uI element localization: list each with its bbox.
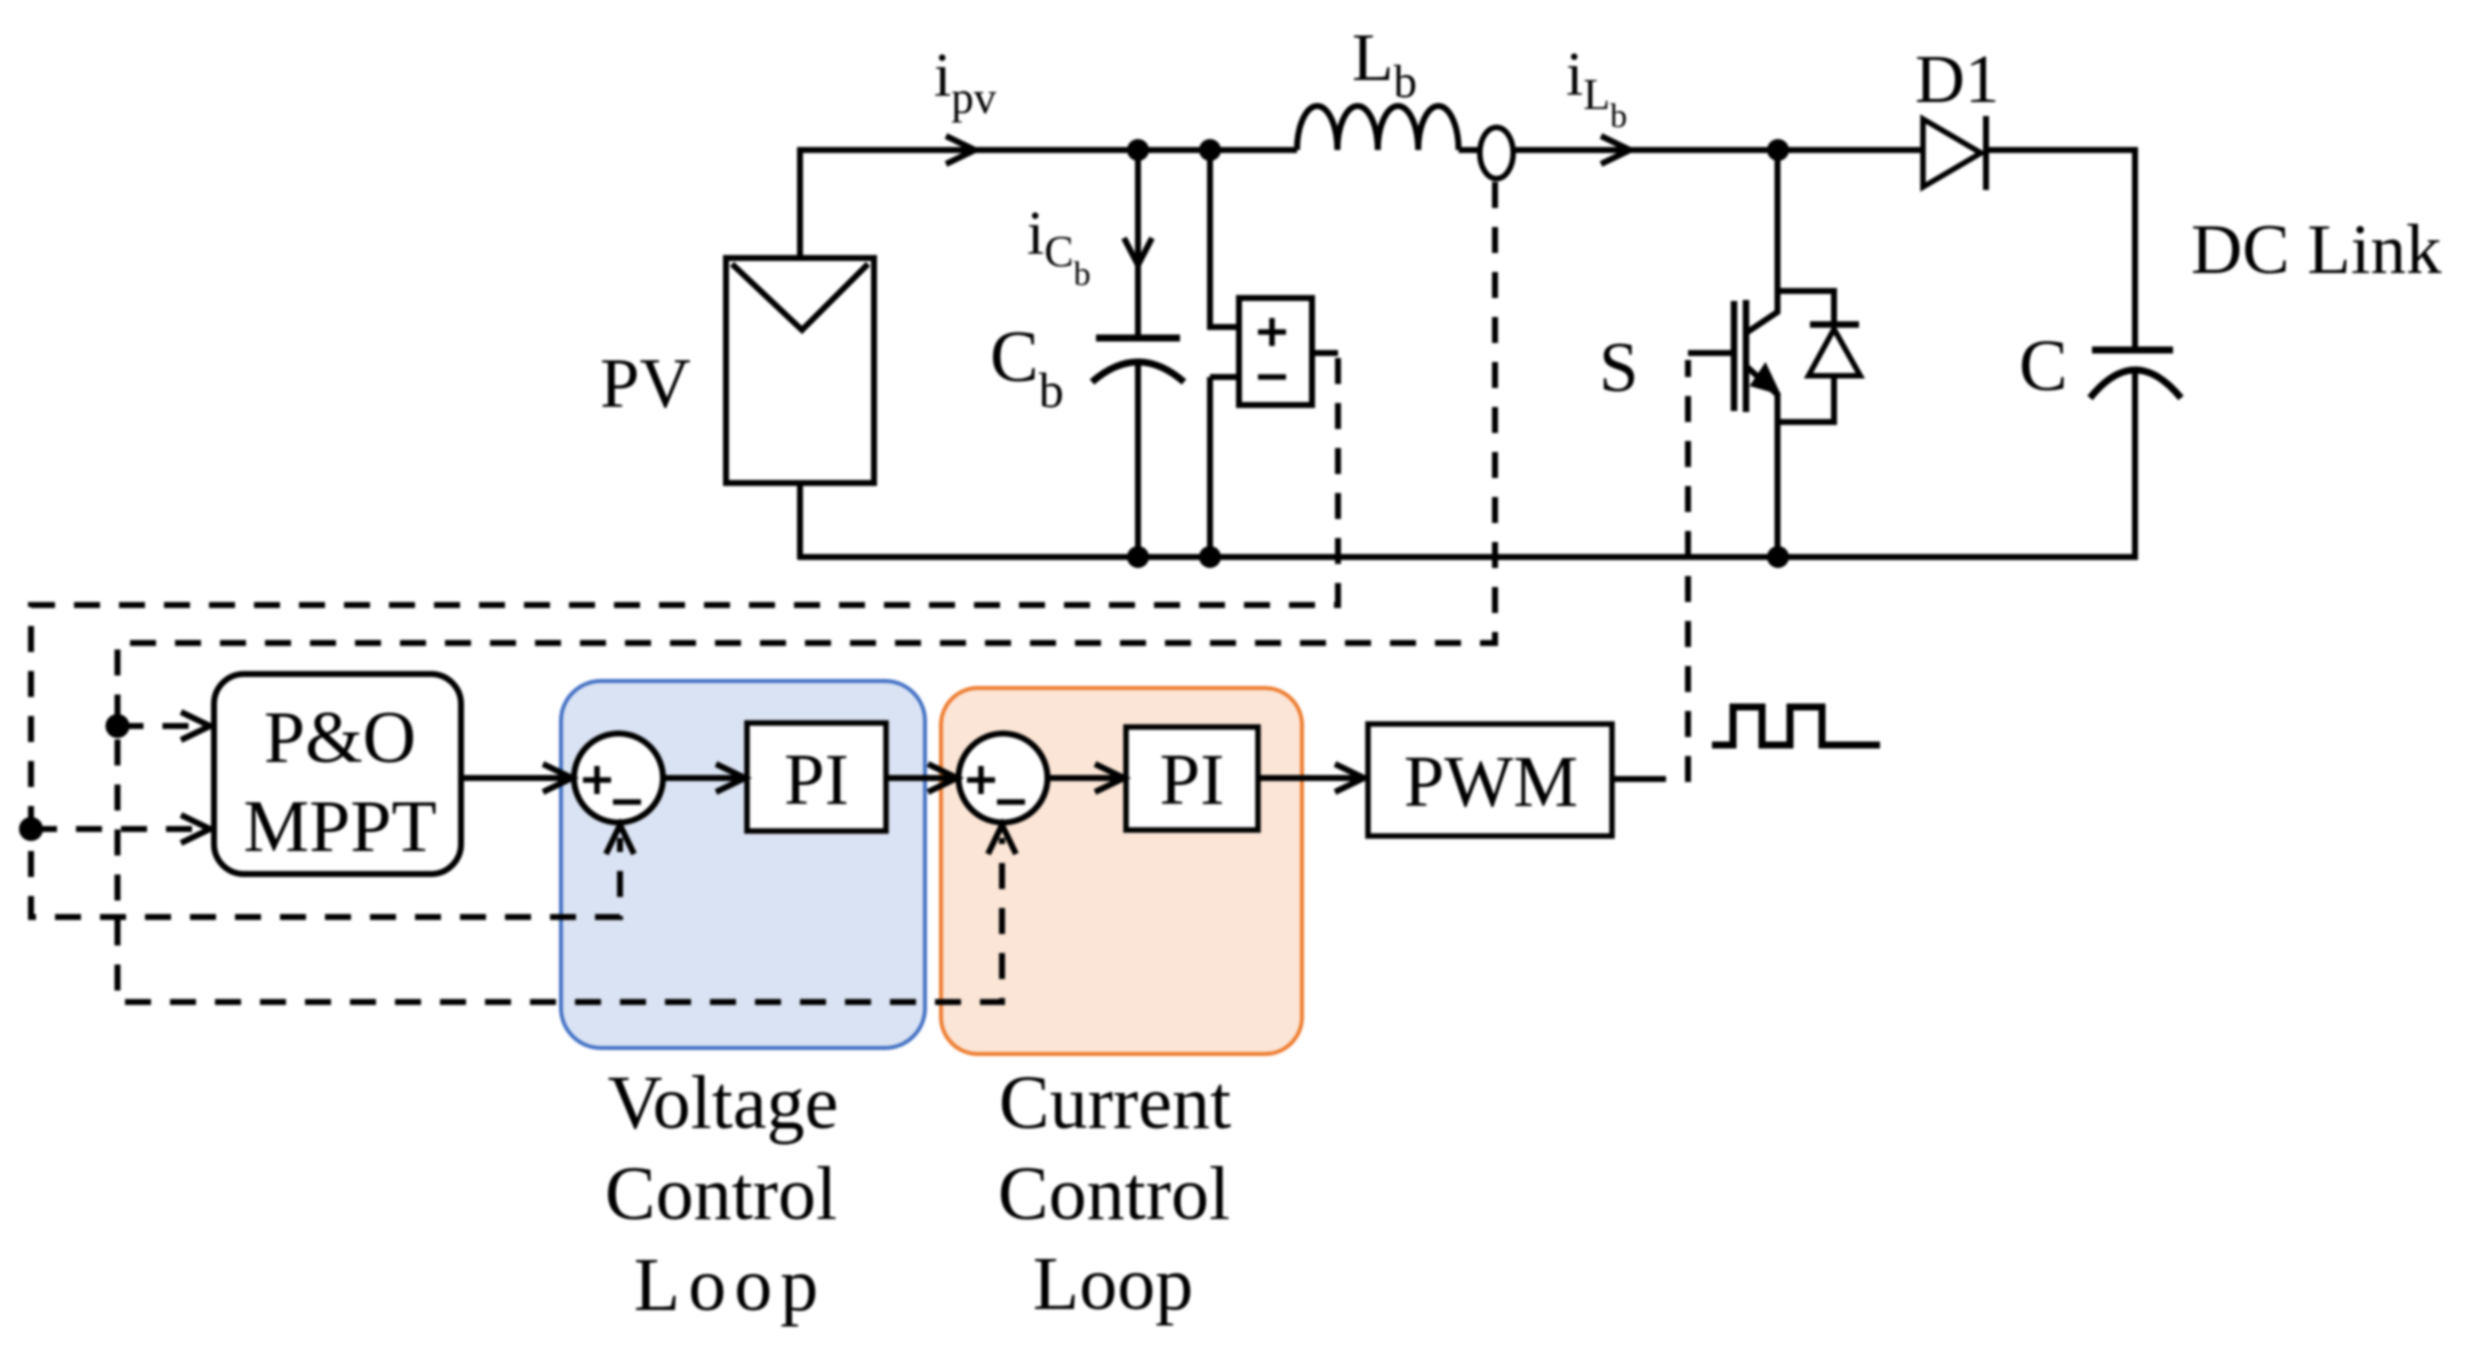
svg-text:S: S — [1599, 329, 1639, 407]
svg-text:C: C — [2019, 325, 2068, 406]
svg-text:Control: Control — [605, 1152, 837, 1236]
svg-text:Lb: Lb — [1352, 19, 1417, 108]
svg-text:PWM: PWM — [1404, 741, 1578, 822]
svg-text:P&O: P&O — [264, 697, 416, 779]
svg-text:Current: Current — [999, 1061, 1231, 1145]
svg-text:ipv: ipv — [934, 42, 997, 123]
svg-text:D1: D1 — [1915, 41, 1999, 117]
svg-text:Control: Control — [998, 1152, 1230, 1236]
svg-text:Loop: Loop — [1033, 1242, 1193, 1326]
svg-text:Cb: Cb — [990, 316, 1064, 418]
svg-text:PV: PV — [600, 345, 691, 423]
svg-text:iCb: iCb — [1027, 200, 1091, 293]
svg-text:iLb: iLb — [1566, 41, 1627, 135]
svg-text:PI: PI — [784, 739, 849, 820]
svg-text:DC Link: DC Link — [2191, 211, 2442, 289]
svg-text:Loop: Loop — [634, 1243, 826, 1327]
svg-text:MPPT: MPPT — [243, 786, 436, 868]
svg-text:Voltage: Voltage — [608, 1061, 839, 1145]
svg-text:PI: PI — [1160, 739, 1225, 820]
